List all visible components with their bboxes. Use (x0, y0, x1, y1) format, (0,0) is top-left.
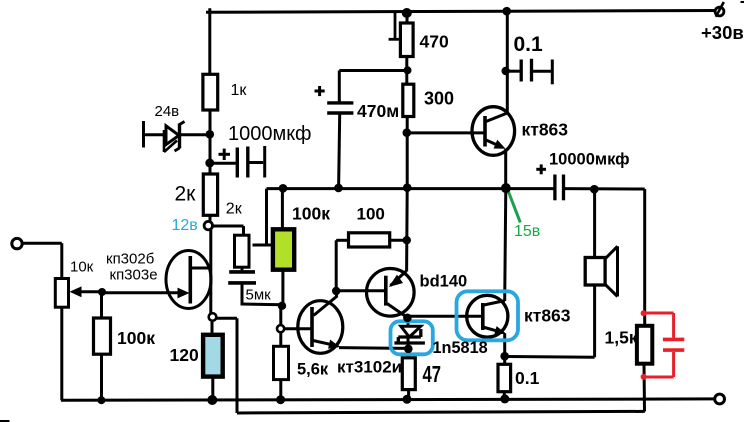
resistor 1.5k (637, 326, 652, 364)
transistor VT2 emitter (313, 341, 339, 347)
resistor 47 (402, 358, 415, 390)
capacitor 10000mkf plates (553, 175, 556, 201)
svg-text:1к: 1к (231, 82, 248, 99)
transistor VT4 emitter with arrow (486, 140, 500, 146)
svg-text:12в: 12в (172, 217, 198, 234)
transistor VT1 gate arrow (178, 288, 190, 299)
node rail1 5.6k (276, 395, 285, 404)
wire source feedback to rail2 (213, 317, 237, 320)
transistor VT5 collector (484, 301, 505, 305)
wire top supply rail (206, 11, 719, 13)
node rail1 120 (207, 395, 217, 405)
blue box around diode 1n5818 (391, 321, 433, 354)
capacitor 1000mkf plates (236, 148, 239, 178)
node mid rail x407 (403, 183, 412, 192)
transistor VT3 base bar (384, 276, 388, 306)
node output mid rail (501, 183, 511, 193)
capacitor 1000mkf left lead (210, 162, 236, 165)
potentiometer wiper wire (81, 290, 102, 293)
node rail1 47 (403, 395, 412, 404)
wire junction to 470m cap (339, 69, 407, 72)
hook artifact near 470 (394, 13, 397, 40)
ring node 12v drain (204, 221, 212, 229)
transistor VT5 kt863 lower circle (467, 295, 508, 337)
resistor 2k small (235, 235, 250, 267)
diode 1n5818 vertical lead (407, 318, 410, 349)
capacitor 1000mkf right lead and T-bar (249, 161, 263, 164)
svg-text:2к: 2к (175, 183, 197, 206)
resistor 100 horizontal (349, 233, 390, 247)
wire 10000mkf to speaker node (564, 187, 645, 190)
input terminal (12, 238, 22, 248)
transistor VT4 base bar (483, 116, 487, 147)
transistor VT5 base wire (409, 315, 483, 318)
terminal +30v (715, 7, 724, 16)
node 300 bottom base junction (403, 128, 412, 137)
diode 1n5818 cathode bars (398, 335, 421, 338)
wire mid rail (267, 187, 554, 190)
wire pot bottom to ground rail (60, 307, 63, 400)
svg-text:1000мкф: 1000мкф (228, 123, 311, 145)
transistor VT1 drain tap (190, 267, 211, 270)
ring node source (209, 313, 217, 321)
transistor VT3 emitter with arrow (391, 271, 407, 286)
svg-text:15в: 15в (514, 223, 540, 240)
svg-text:100к: 100к (117, 328, 155, 348)
node rail1 100k (97, 396, 105, 404)
svg-text:кт863: кт863 (522, 120, 569, 140)
transistor VT3 bd140 circle (367, 269, 415, 317)
transistor VT3 collector (387, 304, 407, 318)
node 0.1 top junction (502, 67, 510, 75)
red node top of 1.5k (641, 310, 647, 316)
transistor VT5 emitter with arrow (483, 327, 500, 332)
wire green 100k to base node (281, 270, 284, 304)
wire drain node to FET (209, 230, 212, 314)
wire input to pot (22, 242, 62, 245)
speaker horn (605, 246, 617, 258)
wire 2k to drain node (209, 215, 212, 221)
red node bottom of 1.5k (641, 374, 647, 380)
transistor VT1 channel bar (189, 256, 193, 304)
transistor VT1 gate wire (102, 291, 179, 294)
green pointer line 15v (508, 190, 521, 223)
wire left vertical from rail to R 1k (208, 8, 211, 74)
node bd140 collector (403, 314, 412, 323)
transistor VT1 jfet kp302 circle (166, 251, 211, 309)
potentiometer wiper arrow (70, 286, 82, 297)
transistor VT4 collector (486, 113, 507, 122)
svg-text:кп303е: кп303е (110, 267, 158, 284)
wire gate node down to 100k (100, 292, 103, 318)
transistor VT4 kt863 top base wire (407, 131, 485, 134)
node zener junction (206, 130, 215, 139)
resistor 120 highlighted blue (203, 335, 223, 377)
zener diode 24v cathode bar (178, 124, 181, 149)
svg-text:5мк: 5мк (246, 287, 272, 304)
node speaker tap (590, 185, 599, 194)
svg-text:120: 120 (170, 345, 199, 365)
svg-text:10000мкф: 10000мкф (549, 151, 630, 169)
wire 470 to junction (405, 57, 408, 85)
svg-text:5,6к: 5,6к (297, 361, 329, 379)
node mid rail 470m (334, 184, 343, 193)
potentiometer 10k body (55, 279, 68, 308)
resistor 5.6k (274, 346, 289, 379)
node gate pot (98, 288, 106, 296)
resistor 470 (400, 23, 413, 57)
svg-text:100к: 100к (292, 204, 330, 224)
resistor 2k big (203, 174, 217, 215)
node 100 right (403, 236, 411, 244)
node 1000mkf junction (205, 159, 214, 168)
resistor 100k highlighted green (273, 229, 294, 269)
blue box around kt863 lower (457, 291, 519, 340)
node 470-300 junction (404, 66, 412, 74)
wire rail to 470 (406, 13, 409, 23)
wire speaker node down (593, 189, 596, 257)
capacitor 470m plates (327, 101, 353, 104)
svg-text:300: 300 (424, 89, 454, 109)
red capacitor plates (663, 338, 684, 342)
wire speaker bottom (593, 285, 596, 357)
node collector kt3102 (332, 287, 340, 295)
diode 1n5818 triangle (401, 326, 421, 337)
wire base node down through ring to 5.6k (279, 306, 282, 346)
node top rail at 470 (402, 8, 412, 18)
svg-text:470: 470 (420, 32, 449, 52)
output terminal bottom right (715, 394, 725, 404)
zener diode 24v wire (144, 133, 207, 136)
wire source node to 120 (211, 321, 214, 335)
transistor VT2 base bar (310, 307, 314, 347)
resistor 0.1 bottom (503, 356, 506, 364)
node base kt3102 junction (278, 302, 286, 310)
wire 5mk to base node (241, 285, 244, 305)
transistor VT5 base bar (481, 303, 485, 330)
ring node 5.6k base (277, 325, 284, 332)
svg-text:470м: 470м (357, 101, 399, 121)
svg-text:кт863: кт863 (524, 306, 571, 326)
capacitor 0.1 top plates (520, 60, 523, 82)
wire node to small 2k resistor (211, 225, 244, 228)
svg-text:47: 47 (423, 361, 442, 387)
node mid rail left (279, 184, 288, 193)
svg-text:кп302б: кп302б (106, 251, 154, 268)
transistor VT2 base wire (284, 327, 312, 330)
svg-text:0.1: 0.1 (515, 368, 540, 388)
node kt863 lower emitter (500, 352, 509, 361)
node diode bottom (404, 345, 413, 354)
resistor 100k left (94, 318, 111, 354)
wire L from mid rail to green resistor side (265, 189, 268, 245)
capacitor 5mk plates (229, 270, 255, 274)
capacitor 1000mkf plus sign (219, 153, 231, 156)
capacitor 0.1 top right lead and T-bar (532, 70, 552, 73)
svg-text:100: 100 (357, 205, 385, 224)
svg-text:10к: 10к (70, 259, 94, 276)
red capacitor wires (645, 313, 684, 377)
corner artifact bottom left (0, 420, 10, 422)
svg-text:+30в: +30в (701, 22, 744, 43)
svg-text:кт3102и: кт3102и (337, 358, 402, 377)
wire 470m down to mid rail (339, 115, 340, 189)
wire 100 right lead (390, 239, 407, 242)
speaker body (585, 258, 605, 286)
transistor VT3 base wire (336, 289, 386, 292)
svg-text:1n5818: 1n5818 (433, 339, 488, 357)
svg-text:1,5к: 1,5к (605, 328, 638, 348)
capacitor 10000mkf plus (536, 168, 546, 171)
node top rail at kt863 collector (502, 7, 511, 16)
svg-text:bd140: bd140 (420, 273, 468, 291)
wire right branch down (643, 189, 646, 326)
node rail1 0.1 (500, 394, 509, 403)
wire 300 to base node (406, 117, 409, 189)
zener diode 24v triangle (166, 126, 179, 145)
wire 100 left lead (335, 240, 338, 291)
transistor VT2 kt3102 circle (298, 301, 343, 354)
wire 1k to zener node (209, 110, 212, 175)
wire diode node to 47 (407, 349, 410, 358)
transistor VT4 kt863 circle (472, 107, 515, 156)
resistor 300 (403, 84, 414, 116)
wire mid rail node down to bd140 (405, 188, 409, 272)
svg-text:2к: 2к (226, 201, 243, 218)
resistor 100k green top lead (281, 190, 284, 230)
wire VT2 emitter to diode node (339, 346, 408, 350)
zener diode 24v left T-bar (142, 121, 145, 148)
svg-text:24в: 24в (155, 103, 180, 120)
resistor 1k (203, 74, 218, 110)
wire bottom rail2 (237, 411, 645, 413)
capacitor 470m plus sign (315, 90, 325, 93)
transistor VT2 collector (314, 297, 337, 316)
capacitor 0.1 top left lead (506, 70, 520, 73)
svg-text:0.1: 0.1 (514, 33, 544, 56)
wire bottom rail1 ground (61, 399, 715, 400)
